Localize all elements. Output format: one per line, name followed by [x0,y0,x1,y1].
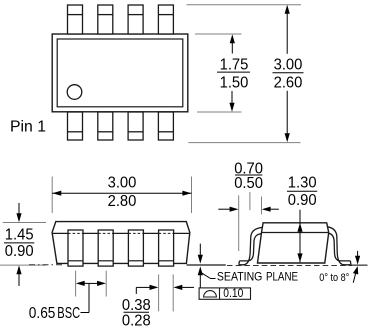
leads (front view) [68,230,174,266]
lead 1 (front view) [68,230,83,266]
seating plane line right of front view [187,264,226,266]
dimension 3.00/2.80 (body width, front view) [52,192,191,194]
dimension 1.75/1.50 (body height, top view) [231,43,233,104]
pin (bottom row 1) [68,112,83,140]
svg-text:1.45: 1.45 [5,227,34,244]
foot angle dimension (right, 0 to 8 deg) [357,251,359,257]
right gull-wing lead (end view) [328,227,351,265]
pin (bottom row 3) [128,112,143,140]
top row pins (top view) [68,5,174,140]
extension lines, top view dims [187,5,302,143]
svg-text:1.75: 1.75 [220,57,249,74]
lead 4 (front view) [159,230,174,266]
hidden parting line through leads (dashed) [68,232,174,234]
pin (top row 2) [98,5,113,34]
svg-text:2.60: 2.60 [274,75,303,92]
svg-text:0.50: 0.50 [234,175,263,192]
left gull-wing lead (end view) [239,227,262,264]
seating plane dashed under end view [227,265,352,267]
dimension 1.45/0.90 (height, front view) [0,223,46,266]
lead 3 (front view) [128,230,143,266]
svg-text:0.10: 0.10 [223,288,243,300]
package body outer outline (top view) [52,34,188,112]
package body (end view) [258,223,329,263]
dimension 3.00/2.60 (overall height, top view) [286,13,288,134]
seating plane leader [201,272,211,278]
svg-text:1.30: 1.30 [288,175,317,192]
svg-text:0° to 8°: 0° to 8° [319,272,349,284]
pin (top row 1) [68,5,83,34]
seating plane dimension arrows (right of front view) [199,244,201,256]
svg-text:0.65: 0.65 [29,305,56,322]
svg-text:3.00: 3.00 [274,57,303,74]
lead 2 (front view) [98,230,113,266]
pin (top row 3) [128,5,143,34]
svg-text:0.90: 0.90 [288,192,317,209]
dimension 0.70/0.50 arrows [218,208,230,210]
pin (bottom row 2) [98,112,113,140]
dimension 0.38/0.28 (lead width) [159,274,174,311]
seating plane symbol (dome) [204,291,217,297]
svg-text:SEATING: SEATING [217,269,263,283]
svg-text:3.00: 3.00 [108,175,137,192]
seating plane dash-dot (left of front view) [29,264,64,266]
body mid (parting) line, front view [53,232,190,234]
svg-text:PLANE: PLANE [266,269,298,283]
flatness feature control frame [199,288,250,299]
svg-text:1.50: 1.50 [220,75,249,92]
parting line (end view) [262,232,329,234]
svg-text:BSC: BSC [57,305,80,322]
pin (bottom row 4) [158,112,173,140]
pin (top row 4) [158,5,173,34]
lead foot lines (front view) [68,260,174,262]
pin 1 index circle [67,85,82,100]
svg-text:0.90: 0.90 [5,243,34,260]
svg-text:0.28: 0.28 [122,312,151,329]
svg-text:2.80: 2.80 [108,193,137,210]
extension lines for 3.00/2.80 [52,177,191,214]
package body (front view) [52,222,190,264]
dimension 0.65 BSC (lead pitch) [76,271,107,297]
svg-text:Pin 1: Pin 1 [10,119,46,136]
extension lines 0.70/0.50 [239,192,262,251]
package body inner outline (top view) [57,39,183,107]
